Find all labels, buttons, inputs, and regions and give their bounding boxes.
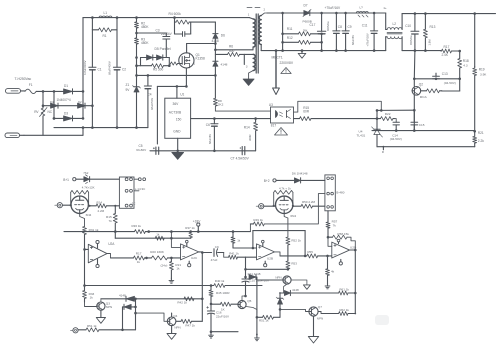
capacitor C1	[89, 30, 102, 128]
wire to Q6	[287, 268, 289, 270]
resistor R20	[421, 89, 442, 93]
svg-text:22uF/16V: 22uF/16V	[216, 314, 229, 318]
svg-text:+75uF/16V: +75uF/16V	[325, 6, 342, 10]
svg-text:R50 2.2M: R50 2.2M	[302, 200, 316, 204]
junction	[114, 230, 200, 233]
svg-text:7k: 7k	[333, 223, 337, 227]
wire U1 vin	[176, 86, 178, 98]
wire bridge bottom	[54, 117, 83, 119]
svg-text:2200kV: 2200kV	[161, 32, 173, 36]
svg-text:GND: GND	[173, 130, 181, 134]
warning triangle 1	[281, 68, 291, 74]
wire opto out top	[294, 101, 382, 112]
svg-text:D3: D3	[64, 111, 68, 115]
transistor Q4	[167, 314, 180, 329]
junction	[210, 284, 213, 287]
svg-text:4.7k + 1k: 4.7k + 1k	[279, 187, 291, 191]
junction	[279, 292, 282, 311]
label 2200V8V	[280, 61, 294, 65]
power stub U2C	[186, 240, 191, 267]
diode D7	[303, 3, 312, 23]
capacitor C3	[137, 29, 173, 58]
svg-text:R19: R19	[479, 67, 485, 71]
wire fb vert	[201, 299, 203, 322]
resistor R15	[294, 106, 378, 121]
svg-text:U3: U3	[269, 103, 273, 107]
wire Q4 top	[171, 313, 173, 317]
resistor R4	[175, 18, 191, 34]
capacitor CT	[231, 147, 250, 161]
warning triangle 2	[275, 128, 288, 136]
label T1	[247, 7, 260, 9]
svg-text:CT 4.5A/50V: CT 4.5A/50V	[231, 157, 250, 161]
wire right vert upper	[245, 257, 247, 277]
wire Q4 base	[136, 313, 168, 321]
wire primary bottom	[215, 47, 253, 50]
svg-text:68uF/400V: 68uF/400V	[108, 61, 112, 75]
wire node to Z1	[136, 75, 138, 86]
wire z2 bottom	[279, 309, 281, 317]
junction	[414, 12, 476, 52]
svg-text:R47 1k: R47 1k	[185, 324, 195, 328]
wire neutral to bridge	[24, 126, 84, 135]
wire bridge right vertical	[82, 91, 84, 118]
svg-text:D6 1N4148: D6 1N4148	[292, 172, 308, 176]
capacitor C9	[342, 13, 352, 51]
capacitor C4	[144, 75, 152, 127]
label 68uF/50V	[150, 98, 154, 110]
svg-text:D5 Parallel: D5 Parallel	[155, 47, 171, 51]
svg-text:2K2: 2K2	[218, 103, 224, 107]
capacitor C14	[393, 119, 399, 131]
svg-text:U2A: U2A	[108, 242, 115, 246]
junction	[210, 330, 213, 333]
IC U1 ACT30B	[165, 92, 191, 138]
wire diode drop left	[122, 307, 124, 330]
wire U2B + bias	[252, 231, 254, 248]
wire U2B - input	[246, 256, 257, 258]
resistor R53	[286, 261, 297, 269]
resistor R43	[211, 302, 238, 311]
capacitor C15	[411, 110, 425, 130]
svg-text:R4 600k: R4 600k	[169, 12, 182, 16]
label 1N4007x4	[57, 98, 71, 102]
label 68uF/6V	[351, 35, 355, 45]
svg-text:MBCT1: MBCT1	[272, 56, 283, 60]
svg-text:Q5: Q5	[247, 299, 251, 303]
resistor R6	[215, 45, 244, 57]
resistor R55	[280, 250, 332, 258]
ground U1	[172, 152, 184, 159]
wire R4 to D6	[191, 22, 216, 33]
wire tl431 vert	[376, 110, 378, 127]
wire D6 down	[214, 38, 216, 50]
diode D6	[212, 34, 226, 44]
resistor R40	[214, 279, 225, 288]
resistor R51b	[259, 315, 280, 322]
svg-text:D7: D7	[304, 3, 308, 7]
junction	[135, 74, 217, 77]
wire Q2 emitter	[413, 95, 415, 131]
diode D5b	[157, 55, 163, 60]
svg-text:4.7K+12K: 4.7K+12K	[82, 185, 95, 189]
junction	[301, 49, 304, 52]
resistor R14	[244, 119, 258, 151]
svg-text:R62 1k: R62 1k	[339, 308, 349, 312]
junction	[42, 90, 94, 120]
svg-text:6N4: 6N4	[290, 214, 296, 218]
shunt U4 TL431	[357, 127, 383, 147]
wire q7 chain	[257, 316, 263, 318]
resistor R47	[176, 319, 202, 327]
resistor R41	[229, 251, 246, 259]
junction	[145, 257, 148, 260]
resistor R12	[283, 36, 322, 45]
power stub U2A	[96, 240, 99, 267]
junction	[376, 117, 379, 120]
resistor R19	[473, 67, 488, 132]
junction	[281, 12, 375, 15]
junction	[435, 78, 461, 81]
resistor R50	[293, 200, 325, 208]
junction	[275, 49, 376, 52]
svg-text:NC: NC	[48, 110, 53, 114]
diode D2	[78, 100, 86, 108]
wire vcc to U2D	[304, 231, 306, 256]
wire primary return	[54, 127, 148, 129]
optocoupler U3	[269, 103, 294, 128]
svg-text:4k: 4k	[331, 270, 335, 274]
label 300R	[248, 135, 252, 141]
connector J1 line input	[6, 89, 26, 94]
wire V2 cathode	[284, 214, 288, 238]
wire U2B out	[275, 252, 281, 256]
wire out vert	[354, 250, 356, 314]
label 1+	[383, 6, 387, 10]
junction	[244, 295, 247, 298]
label 1M	[428, 39, 432, 46]
wire vcc right	[253, 230, 305, 232]
svg-text:C6: C6	[206, 123, 210, 127]
svg-text:150: 150	[176, 117, 182, 121]
wire secondary rail	[267, 12, 386, 14]
wire y79	[414, 78, 459, 80]
svg-text:6.8uF/400V: 6.8uF/400V	[83, 60, 87, 75]
resistor R19b	[155, 232, 164, 240]
capacitor C16s	[175, 32, 191, 37]
resistor R11	[283, 27, 322, 36]
resistor R54 bias	[231, 230, 241, 248]
wire U1 out	[191, 118, 271, 120]
label 04-50V	[444, 81, 456, 85]
svg-text:36V: 36V	[173, 102, 180, 106]
wire vcc rail	[64, 231, 250, 233]
label 68uF/6V c6	[208, 134, 212, 144]
resistor R21b	[169, 258, 181, 278]
junction	[326, 255, 329, 258]
junction	[201, 298, 204, 301]
junction	[201, 251, 204, 254]
tube V2	[276, 196, 297, 218]
resistor R10b plate loop	[273, 187, 294, 207]
wire rail right bottom	[402, 50, 441, 52]
junction	[134, 298, 137, 301]
wire R6 to xfmr	[244, 54, 248, 68]
label 6.8uF/400V	[83, 60, 87, 75]
junction	[354, 249, 357, 252]
svg-text:60R: 60R	[303, 110, 310, 114]
resistor R58	[328, 232, 355, 250]
choke L2	[386, 13, 402, 51]
ground Q7	[308, 337, 318, 344]
svg-text:R14: R14	[97, 200, 103, 204]
junction	[176, 85, 188, 88]
svg-text:B-480: B-480	[336, 190, 344, 194]
wire Q3 base	[85, 299, 97, 307]
svg-text:NPN: NPN	[174, 325, 180, 329]
svg-text:R17: R17	[444, 45, 450, 49]
svg-text:2.2k: 2.2k	[478, 139, 484, 143]
svg-text:R51 1k: R51 1k	[87, 324, 97, 328]
terminal B+1	[63, 178, 76, 182]
svg-text:U2D: U2D	[350, 245, 357, 249]
diode D4	[50, 100, 58, 108]
svg-text:L2: L2	[393, 22, 397, 26]
capacitor C6	[206, 119, 218, 151]
transistor Q1	[179, 53, 205, 68]
resistor R62	[339, 308, 356, 316]
svg-text:U1: U1	[180, 92, 184, 96]
wire z2 to Q7	[280, 309, 309, 311]
transistor Q2	[412, 82, 428, 99]
resistor R5	[137, 64, 170, 72]
svg-text:NPN: NPN	[275, 276, 281, 280]
wire C5 drop	[156, 86, 158, 144]
junction	[210, 303, 213, 306]
svg-text:4148: 4148	[292, 288, 299, 292]
resistor R31	[83, 227, 99, 235]
transformer T1 secondary winding	[259, 8, 267, 45]
capacitor C8	[333, 13, 342, 51]
transformer T1 core	[256, 14, 258, 73]
diode D21	[123, 304, 136, 309]
junction	[134, 306, 137, 315]
diode D5a	[147, 55, 153, 60]
svg-text:817: 817	[271, 124, 277, 128]
wire C13 loop	[442, 79, 460, 91]
svg-text:63-80V: 63-80V	[136, 148, 147, 152]
svg-text:R17: R17	[136, 252, 142, 256]
resistor R22	[377, 112, 395, 120]
junction	[304, 255, 307, 258]
wire U2C + bias	[171, 232, 180, 248]
wire secondary bottom rail	[276, 50, 386, 52]
svg-text:C10: C10	[405, 24, 411, 28]
svg-text:(24v): (24v)	[161, 263, 168, 267]
resistor R49	[250, 194, 325, 232]
svg-text:2.2M: 2.2M	[98, 209, 105, 213]
connector K1 jack block	[119, 177, 145, 208]
svg-text:R61 1k: R61 1k	[339, 287, 349, 291]
wire primary top rail	[83, 18, 175, 92]
resistor R57	[326, 211, 338, 237]
resistor R15b	[106, 205, 117, 239]
wire mid vert right	[256, 280, 258, 336]
wire aux to gnd	[249, 71, 254, 80]
junction	[281, 33, 323, 44]
svg-text:R53: R53	[291, 261, 297, 265]
arrow secondary sense	[273, 51, 280, 95]
svg-text:B+1: B+1	[63, 178, 69, 182]
wire sec left drop	[282, 13, 284, 51]
wire bridge mid	[43, 105, 92, 107]
resistor R7	[169, 62, 179, 66]
zener Z1	[126, 83, 141, 128]
junction	[53, 117, 138, 129]
power stub U2D	[337, 239, 342, 265]
svg-text:R55: R55	[307, 250, 313, 254]
svg-text:D6: D6	[221, 34, 225, 38]
svg-text:R1: R1	[103, 34, 107, 38]
svg-text:x-14:3C: x-14:3C	[135, 187, 146, 191]
wire Q4 emitter stub	[171, 326, 173, 334]
wire to diodes	[123, 329, 136, 331]
svg-text:R42 1k: R42 1k	[177, 301, 187, 305]
diode D20	[119, 294, 135, 302]
transistor Q5	[238, 299, 252, 308]
resistor R36 rail	[132, 224, 146, 234]
svg-text:R58 15k: R58 15k	[337, 232, 349, 236]
wire rail to xfmr	[175, 12, 250, 17]
svg-text:C9: C9	[348, 25, 352, 29]
svg-text:3: 3	[246, 65, 248, 69]
svg-text:300R: 300R	[248, 135, 252, 141]
wire cathode mid	[287, 245, 289, 261]
terminal B+2	[264, 179, 276, 183]
wire to U2C minus	[171, 257, 180, 259]
wire Q3 collector	[100, 299, 102, 302]
svg-text:L1: L1	[104, 11, 108, 15]
svg-text:47uF: 47uF	[211, 258, 218, 262]
svg-text:2200V8V: 2200V8V	[280, 61, 294, 65]
svg-text:F1: F1	[29, 83, 33, 87]
connector K2 jack block	[325, 175, 335, 211]
svg-text:1k: 1k	[90, 296, 94, 300]
wire C9 jog	[224, 253, 229, 258]
wire mid rail	[85, 285, 263, 287]
junction	[135, 56, 170, 67]
svg-text:(04-50V): (04-50V)	[390, 137, 402, 141]
junction	[135, 16, 138, 34]
wire diode drop right	[135, 299, 137, 330]
ground aux	[243, 79, 254, 86]
resistor R33	[83, 286, 95, 303]
svg-text:K1358: K1358	[196, 57, 205, 61]
svg-text:U2C: U2C	[191, 256, 198, 260]
diode D3	[64, 111, 73, 121]
ground C16	[209, 333, 214, 338]
svg-text:L?: L?	[360, 5, 364, 9]
svg-text:NPN: NPN	[317, 317, 323, 321]
svg-text:Q7: Q7	[318, 305, 322, 309]
wire right vertical	[474, 14, 476, 67]
svg-text:R14: R14	[244, 125, 250, 129]
svg-text:1k: 1k	[176, 267, 180, 271]
wire y75 node	[137, 74, 216, 76]
resistor R17b	[111, 252, 147, 264]
junction	[214, 42, 217, 51]
svg-text:(04-50V): (04-50V)	[444, 81, 456, 85]
label 68uF/400V	[108, 61, 112, 75]
svg-text:7S2: 7S2	[83, 171, 89, 175]
resistor R21	[473, 131, 485, 147]
label K1	[132, 187, 146, 205]
resistor R12a anode	[88, 200, 119, 213]
svg-text:R6: R6	[229, 45, 233, 49]
transformer T1 primary winding	[250, 18, 256, 47]
ground Q6	[303, 285, 310, 289]
wire U2C out	[199, 251, 203, 254]
junction	[354, 292, 357, 315]
svg-text:C1: C1	[98, 67, 102, 71]
diode D11	[248, 272, 261, 280]
svg-text:C17: C17	[310, 23, 316, 27]
op-amp U2C	[181, 244, 199, 260]
ground secondary	[298, 51, 306, 59]
svg-text:C2: C2	[122, 67, 126, 71]
resistor R42	[177, 297, 194, 305]
resistor R10 plate loop	[70, 185, 95, 206]
wire clamp	[137, 58, 170, 76]
svg-text:R37 1k: R37 1k	[185, 226, 195, 230]
junction	[213, 117, 257, 120]
svg-text:68uF/50V: 68uF/50V	[150, 98, 154, 110]
transformer T1 aux winding	[244, 54, 255, 70]
svg-text:D11 4148: D11 4148	[248, 272, 261, 276]
connector J2 neutral input	[5, 133, 24, 138]
svg-text:B+2: B+2	[264, 179, 270, 183]
svg-text:+78uF/16V: +78uF/16V	[365, 33, 369, 46]
resistor R20b	[147, 250, 172, 260]
svg-text:R12: R12	[287, 36, 293, 40]
svg-text:1N4007*4: 1N4007*4	[57, 98, 71, 102]
wire R60 tap	[327, 256, 329, 269]
svg-text:U2B: U2B	[267, 256, 273, 260]
wire bridge top	[43, 90, 83, 92]
ground R60	[325, 284, 330, 289]
resistor R18	[458, 51, 469, 79]
wire secondary bottom	[261, 45, 276, 51]
varistor RV1	[34, 91, 53, 135]
decor	[375, 315, 389, 325]
wire fb mid	[372, 130, 475, 132]
label T-H250Vac	[15, 77, 32, 81]
junction	[413, 78, 416, 81]
junction	[413, 109, 416, 132]
wire Q6 emitter	[284, 284, 287, 293]
diode D1	[64, 84, 73, 94]
svg-text:2.4K: 2.4K	[442, 53, 449, 57]
svg-text:R41 1k: R41 1k	[229, 251, 239, 255]
svg-text:D2: D2	[78, 100, 82, 104]
wire source node	[157, 85, 186, 87]
junction	[458, 50, 461, 53]
transistor Q7	[309, 305, 323, 321]
label K2	[336, 190, 344, 194]
ground mid	[255, 334, 260, 341]
capacitor C16	[207, 304, 229, 332]
wire cathode	[80, 213, 85, 226]
